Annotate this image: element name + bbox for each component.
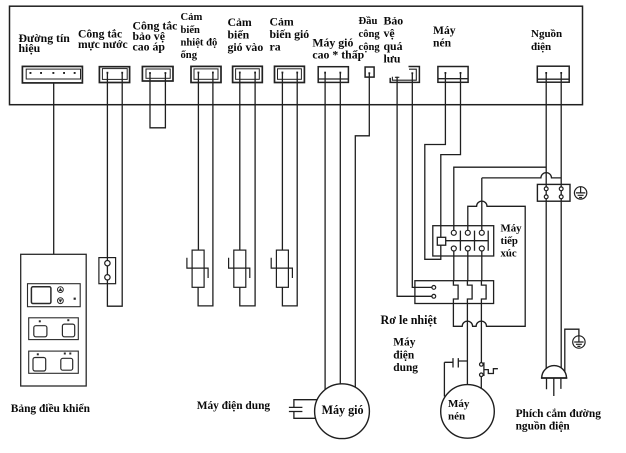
svg-text:mực nước: mực nước [78, 38, 128, 51]
svg-text:Máy điện dung: Máy điện dung [197, 400, 271, 412]
svg-text:cộng: cộng [359, 42, 381, 53]
svg-text:Đầu: Đầu [359, 16, 378, 27]
svg-text:Cảm: Cảm [181, 12, 203, 23]
svg-text:xúc: xúc [501, 248, 517, 260]
svg-text:nén: nén [433, 37, 452, 50]
svg-text:cao áp: cao áp [133, 40, 166, 54]
svg-text:biến: biến [181, 25, 201, 36]
svg-text:nguồn điện: nguồn điện [516, 421, 571, 433]
svg-text:ra: ra [270, 40, 281, 54]
svg-text:Rơ le nhiệt: Rơ le nhiệt [381, 313, 437, 327]
svg-text:Máy: Máy [393, 337, 415, 349]
svg-text:Máy gió: Máy gió [322, 403, 364, 417]
svg-text:Máy: Máy [448, 398, 470, 410]
svg-text:hiệu: hiệu [19, 41, 41, 55]
svg-text:gió vào: gió vào [228, 40, 264, 54]
svg-text:Phích cắm đường: Phích cắm đường [516, 408, 602, 420]
svg-text:tiếp: tiếp [501, 235, 518, 247]
svg-text:nhiệt độ: nhiệt độ [181, 38, 218, 49]
svg-text:Máy: Máy [501, 223, 523, 235]
svg-text:nén: nén [448, 411, 465, 423]
svg-text:Máy: Máy [433, 24, 456, 37]
svg-text:công: công [359, 29, 381, 40]
svg-text:ống: ống [181, 50, 198, 61]
svg-text:điện: điện [393, 350, 415, 362]
svg-text:điện: điện [531, 41, 551, 53]
svg-text:dung: dung [393, 362, 418, 374]
svg-text:Nguồn: Nguồn [531, 28, 562, 40]
svg-text:Bảng điều khiển: Bảng điều khiển [11, 403, 91, 415]
svg-text:cao * thấp: cao * thấp [312, 48, 364, 62]
svg-text:vệ: vệ [384, 26, 395, 40]
svg-text:lưu: lưu [384, 52, 401, 66]
